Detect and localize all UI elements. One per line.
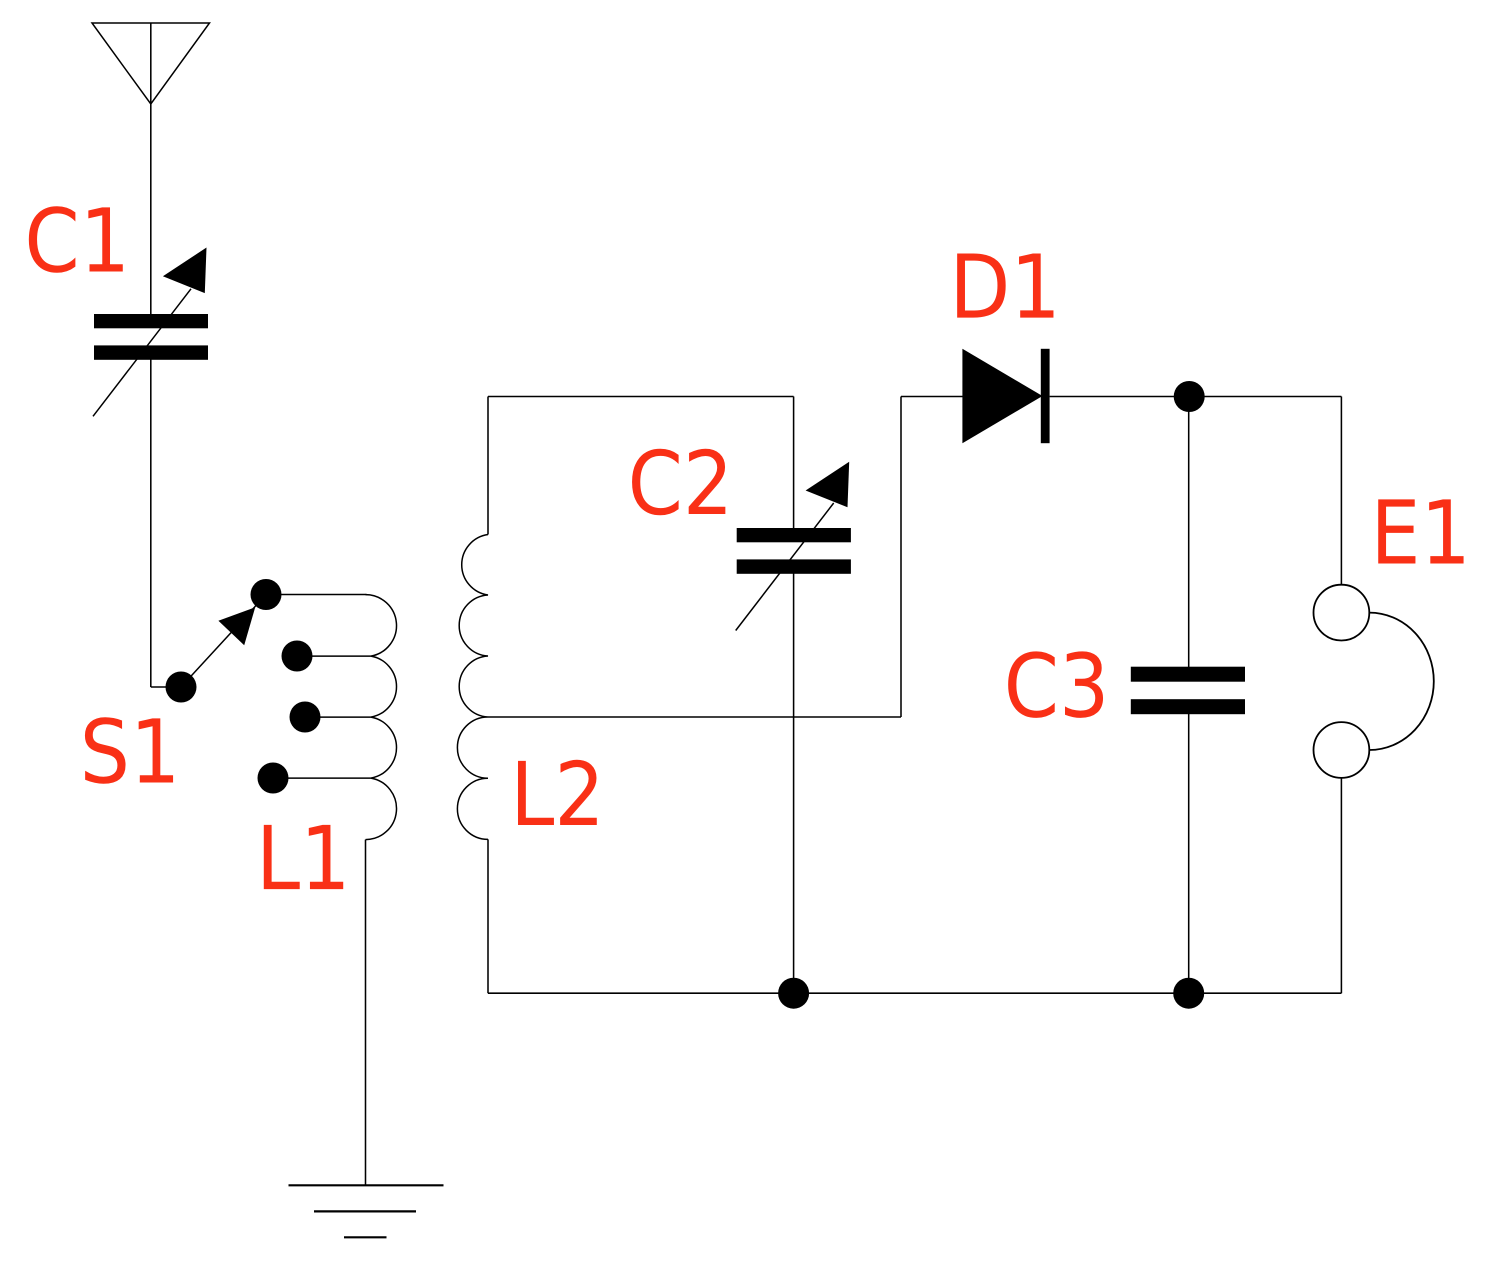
label C3 [1008, 651, 1103, 718]
wire tap 1 [266, 594, 367, 596]
wire L2 top [487, 397, 489, 535]
switch contact 2 [282, 641, 313, 672]
wire C2 branch lower [793, 566, 795, 993]
wire bottom rail [488, 992, 1341, 994]
node C3 bottom [1173, 978, 1204, 1009]
node C2 bottom [778, 978, 809, 1009]
wire tap 2 [297, 655, 372, 657]
wire antenna feed [150, 23, 152, 318]
antenna [92, 23, 210, 104]
label C1 [29, 206, 123, 273]
ground [289, 1185, 444, 1237]
wire to switch pole [151, 686, 181, 688]
wire diode riser [900, 397, 902, 718]
wire L1 to ground [365, 840, 367, 1186]
wire right branch upper [1340, 397, 1342, 585]
wire right branch lower [1340, 778, 1342, 993]
label E1 [1378, 499, 1463, 563]
wire C2 branch upper [793, 397, 795, 537]
inductor L2 [457, 535, 488, 840]
wire C1 to switch [150, 356, 152, 687]
node diode output [1174, 381, 1205, 412]
earphone E1 [1314, 585, 1434, 778]
capacitor C2 (variable) [736, 462, 851, 631]
capacitor C3 [1131, 667, 1245, 715]
switch S1 pole [166, 672, 197, 703]
inductor L1 [366, 595, 397, 840]
wire tap 3 [305, 716, 372, 718]
wire L2 bottom [487, 839, 489, 993]
label L2 [518, 760, 597, 825]
label D1 [957, 254, 1053, 318]
diode D1 [962, 349, 1049, 443]
wire top L2 to C2 [488, 396, 794, 398]
wire C3 branch upper [1188, 397, 1190, 675]
wire tap 4 [273, 777, 372, 779]
label L1 [264, 825, 343, 889]
switch S1 arm [181, 599, 262, 687]
wire L2 tap to diode riser [488, 716, 901, 718]
wire C3 branch lower [1188, 706, 1190, 993]
switch contact 1 [251, 579, 282, 610]
label C2 [632, 449, 725, 516]
label S1 [85, 717, 173, 784]
wire riser to diode [901, 396, 963, 398]
switch contact 3 [290, 702, 321, 733]
capacitor C1 (variable) [93, 248, 208, 417]
switch contact 4 [258, 763, 289, 794]
wire diode to right corner [1050, 396, 1342, 398]
